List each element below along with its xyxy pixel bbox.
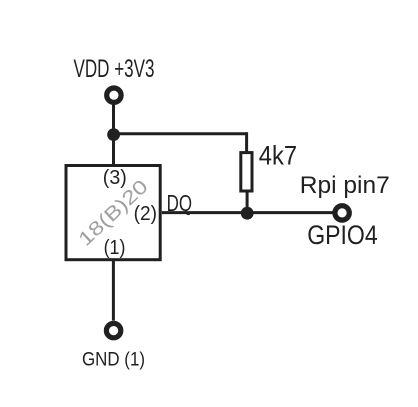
svg-text:(1): (1) [104,237,126,259]
svg-text:VDD +3V3: VDD +3V3 [74,55,155,83]
wire junction to box pin 3 [112,134,115,165]
wire resistor bottom to junction B [246,191,249,213]
wire VDD terminal to junction [112,105,115,134]
svg-text:(3): (3) [103,167,127,189]
terminal GPIO4 [335,206,349,220]
junction dot B [241,207,254,220]
IC U1 DS18B20 box [66,166,160,260]
wire box pin 1 to GND terminal [112,260,115,321]
wire junction to resistor top (horizontal) [114,132,247,135]
svg-text:GPIO4: GPIO4 [307,220,378,250]
terminal GND [106,323,120,337]
wire corner down to resistor [245,132,248,152]
terminal VDD [107,88,121,102]
svg-text:Rpi pin7: Rpi pin7 [300,172,390,199]
svg-text:GND (1): GND (1) [82,348,145,370]
svg-text:(2): (2) [134,203,157,225]
resistor R1 4k7 [241,153,252,191]
svg-text:4k7: 4k7 [259,140,297,170]
junction dot A [107,128,120,141]
wire DQ: box pin 2 to GPIO terminal [162,211,333,214]
